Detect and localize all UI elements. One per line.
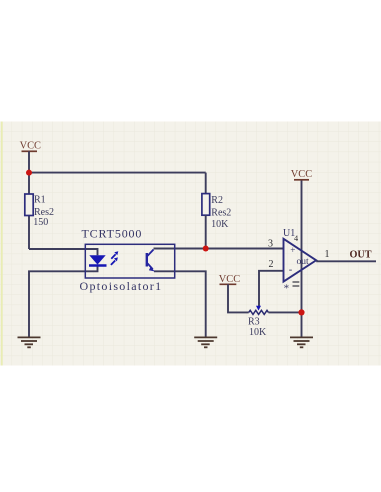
op-amp U1 <box>283 228 316 294</box>
svg-text:Optoisolator1: Optoisolator1 <box>80 279 163 293</box>
svg-text:+: + <box>290 245 295 255</box>
svg-text:R1: R1 <box>34 195 46 206</box>
svg-text:VCC: VCC <box>219 274 240 285</box>
resistor R2 <box>202 194 231 230</box>
wire VCC to R3 left <box>228 284 249 312</box>
wire R2 bottom to node B <box>205 215 207 248</box>
ground (right, op-amp V-) <box>290 337 313 347</box>
wire LED cathode row to ground column <box>29 266 98 338</box>
svg-text:3: 3 <box>268 238 273 249</box>
svg-text:2: 2 <box>269 259 274 270</box>
svg-text:out: out <box>297 257 310 267</box>
optoisolator U TCRT5000 box <box>80 226 175 293</box>
resistor R1 <box>25 194 54 228</box>
node B junction R2/collector <box>203 246 209 252</box>
svg-text:TCRT5000: TCRT5000 <box>82 226 143 240</box>
pin number 11 rotated marker <box>293 282 300 286</box>
node C junction R3/op-amp V- column <box>298 309 304 315</box>
phototransistor inside optoisolator <box>147 250 155 272</box>
wire bus from node A to R2 top <box>29 172 206 174</box>
ground (middle, emitter) <box>194 337 217 347</box>
wire pin 2 from wiper column to op-amp <box>259 271 284 307</box>
svg-text:150: 150 <box>33 217 48 228</box>
svg-text:10K: 10K <box>249 327 267 338</box>
svg-text:R2: R2 <box>211 195 223 206</box>
wire R2 column top <box>205 173 207 194</box>
node A junction at VCC/R1/bus <box>26 170 32 176</box>
wire R3 right to node C <box>268 311 301 313</box>
wire VCC left column down to R1 and LED anode corner <box>28 151 30 249</box>
svg-text:VCC: VCC <box>291 169 312 180</box>
wire emitter row to middle ground column <box>154 271 206 337</box>
wire collector row from opto to op-amp pin 3 <box>154 248 284 250</box>
svg-text:-: - <box>289 265 293 276</box>
wire op-amp power column VCC to ground through pins 4 and 11 <box>301 181 303 338</box>
potentiometer R3 <box>248 306 268 338</box>
schematic sheet background <box>0 122 381 366</box>
LED emission arrows <box>111 251 118 265</box>
svg-text:10K: 10K <box>211 219 229 230</box>
svg-text:1: 1 <box>325 249 330 260</box>
wire LED anode row <box>29 249 98 255</box>
ground (left, LED cathode) <box>18 337 41 347</box>
power symbol VCC (op-amp) <box>291 169 312 180</box>
LED inside optoisolator <box>89 255 107 265</box>
svg-text:Res2: Res2 <box>211 207 231 218</box>
svg-text:*: * <box>284 283 290 295</box>
svg-text:OUT: OUT <box>350 249 372 260</box>
svg-text:VCC: VCC <box>20 141 41 152</box>
power symbol VCC (R3) <box>219 274 240 285</box>
wire output pin 1 <box>316 260 376 262</box>
power symbol VCC (left) <box>20 141 41 152</box>
svg-text:R3: R3 <box>248 317 260 328</box>
